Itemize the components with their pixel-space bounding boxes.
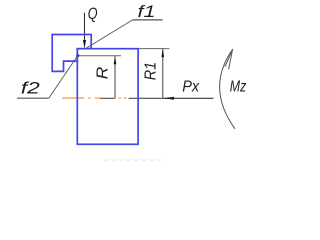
svg-text:R1: R1 — [143, 62, 160, 81]
svg-text:R: R — [95, 67, 112, 80]
svg-text:Mz: Mz — [230, 78, 247, 95]
svg-text:f1: f1 — [138, 2, 156, 21]
svg-text:f2: f2 — [21, 79, 41, 98]
svg-text:Q: Q — [88, 5, 98, 23]
svg-text:Px: Px — [182, 78, 200, 95]
